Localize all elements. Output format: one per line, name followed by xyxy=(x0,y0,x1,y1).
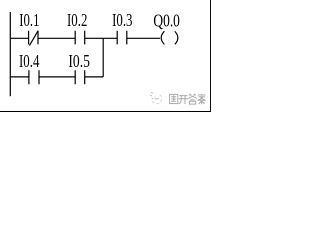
svg-text:I0.4: I0.4 xyxy=(19,51,39,71)
svg-text:I0.2: I0.2 xyxy=(67,10,87,30)
svg-text:I0.5: I0.5 xyxy=(68,51,90,71)
svg-text:I0.3: I0.3 xyxy=(112,10,132,30)
svg-text:Q0.0: Q0.0 xyxy=(153,10,180,30)
svg-text:I0.1: I0.1 xyxy=(19,10,39,30)
